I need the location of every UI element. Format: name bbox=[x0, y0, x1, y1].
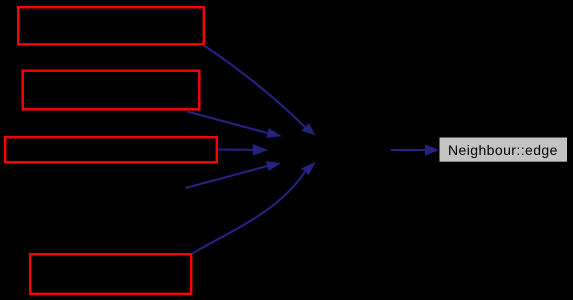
caller node box 1 bbox=[18, 7, 204, 44]
edge 4 wire: hidden node to center node bbox=[186, 166, 268, 188]
node Neighbour::edge box bbox=[440, 138, 568, 162]
edge 2 wire: box2 to center node bbox=[187, 112, 268, 134]
edge 3 wire: box3 to center node bbox=[218, 148, 253, 150]
edge 5 wire: box4 to center node bbox=[192, 172, 305, 254]
edge 5 arrowhead bbox=[301, 162, 315, 176]
edge 2 arrowhead bbox=[266, 128, 282, 137]
edge 6 arrowhead bbox=[425, 144, 439, 156]
svg-text:Neighbour::edge: Neighbour::edge bbox=[448, 142, 558, 158]
edge 1 wire: box1 to center node bbox=[204, 46, 305, 128]
caller node box 2 bbox=[23, 71, 200, 110]
edge 3 arrowhead bbox=[253, 144, 268, 156]
edge 1 arrowhead bbox=[301, 123, 315, 135]
edge 4 arrowhead bbox=[266, 161, 281, 171]
edge 6 wire: center node to Neighbour::edge bbox=[391, 149, 425, 151]
caller node box 3 bbox=[5, 137, 217, 162]
caller node box 4 bbox=[30, 254, 191, 294]
